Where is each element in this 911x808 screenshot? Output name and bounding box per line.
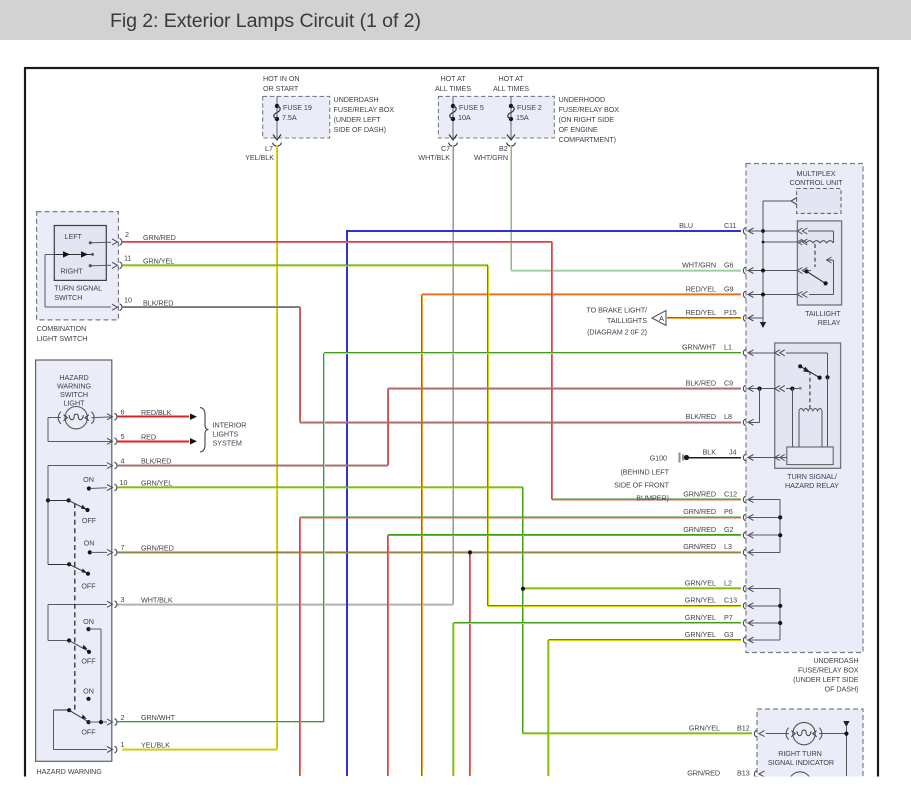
- C9 to L8 jumper: [748, 387, 762, 423]
- svg-text:FUSE 5: FUSE 5: [459, 103, 484, 112]
- svg-text:15A: 15A: [516, 113, 529, 122]
- junction pin7/L3 branch: [468, 550, 472, 554]
- reference triangle A: [652, 311, 666, 326]
- svg-text:OFF: OFF: [81, 657, 96, 666]
- svg-text:FUSE/RELAY BOX: FUSE/RELAY BOX: [559, 105, 620, 114]
- hazard switch lamp: [58, 407, 94, 429]
- connector pin 10 (hazard): [107, 478, 127, 491]
- lamp wire to pin 6: [91, 416, 111, 419]
- label OFF (switch 4): [81, 728, 96, 737]
- svg-text:G6: G6: [724, 260, 734, 269]
- svg-text:BLK/RED: BLK/RED: [141, 457, 171, 466]
- wire GRN/RED G2 from page bottom: [388, 535, 742, 776]
- connector pin 11 (turn signal): [112, 253, 131, 268]
- hazard pin 1 internal wire: [54, 710, 108, 749]
- ts relay edge arrows: [775, 350, 785, 461]
- label WHT/GRN (fuse B2): [474, 153, 508, 162]
- label GRN/WHT pin 2: [141, 713, 176, 722]
- svg-text:COMBINATION: COMBINATION: [37, 324, 87, 333]
- wire GRN/YEL pin10 to B12: [118, 487, 753, 734]
- svg-text:FUSE/RELAY BOX: FUSE/RELAY BOX: [798, 666, 859, 675]
- connector pin 2 (turn signal): [112, 230, 129, 245]
- svg-text:B12: B12: [737, 723, 750, 732]
- ts relay coil: [792, 377, 827, 447]
- svg-text:GRN/YEL: GRN/YEL: [685, 596, 716, 605]
- label GRN/RED pin 2: [143, 233, 176, 242]
- svg-text:GRN/RED: GRN/RED: [683, 525, 716, 534]
- svg-text:OR START: OR START: [263, 84, 299, 93]
- fuse F5 10A: [450, 96, 484, 138]
- svg-text:HAZARD WARNING: HAZARD WARNING: [37, 767, 103, 776]
- turn signal common arm: [54, 251, 94, 257]
- svg-text:HOT AT: HOT AT: [499, 74, 525, 83]
- hazard switch 1 arm: [48, 498, 90, 512]
- wire BLK/RED pin4 to C9: [118, 388, 742, 466]
- lamp loop wire to pin 5: [48, 418, 111, 442]
- svg-text:COMPARTMENT): COMPARTMENT): [559, 135, 616, 144]
- connector pin 1 (hazard): [107, 740, 125, 753]
- label UNDERDASH FUSE/RELAY BOX: [334, 95, 395, 134]
- svg-text:RIGHT: RIGHT: [61, 267, 84, 276]
- wire GRN/RED P6 from page bottom: [300, 517, 742, 776]
- svg-text:WHT/GRN: WHT/GRN: [474, 153, 508, 162]
- ts relay J4 wire: [748, 457, 787, 459]
- wire BLK G100 to J4: [686, 457, 741, 459]
- svg-text:6: 6: [121, 408, 125, 417]
- label TURN SIGNAL SWITCH: [54, 284, 102, 303]
- wire GRN/WHT pin2 to L1: [118, 352, 742, 722]
- svg-text:L7: L7: [265, 144, 273, 153]
- hazard switch 4 ON contact: [83, 687, 94, 701]
- svg-text:FUSE 19: FUSE 19: [283, 103, 312, 112]
- taillight relay actuator (dashed): [814, 244, 816, 267]
- svg-text:SIGNAL INDICATOR: SIGNAL INDICATOR: [768, 758, 834, 767]
- wire RED/BLK to interior lights: [118, 416, 190, 417]
- connector pin 4 (hazard): [107, 456, 125, 469]
- label HOT AT ALL TIMES (fuse 5): [435, 74, 471, 93]
- svg-text:2: 2: [125, 230, 129, 239]
- svg-text:LIGHTS: LIGHTS: [213, 430, 239, 439]
- label GRN/RED pin 7: [141, 544, 174, 553]
- svg-text:C12: C12: [724, 489, 737, 498]
- label HOT AT ALL TIMES (fuse 2): [493, 74, 529, 93]
- wire WHT/BLK C7 to hazard pin 3: [117, 145, 454, 605]
- connector pin 6 (hazard): [107, 408, 125, 421]
- fuse box exit arrow B2: [499, 135, 515, 154]
- taillight relay fixed contact: [809, 257, 833, 295]
- svg-text:3: 3: [121, 595, 125, 604]
- label MULTIPLEX CONTROL UNIT: [789, 169, 843, 187]
- wire YEL/BLK L7 to hazard pin 1: [122, 145, 278, 750]
- GRN/RED group bus: [748, 500, 782, 553]
- taillight relay contact: [804, 269, 827, 285]
- svg-text:GRN/RED: GRN/RED: [687, 768, 720, 777]
- svg-text:B13: B13: [737, 768, 750, 777]
- wire GRN/RED branch down from L3 line: [470, 552, 471, 776]
- connector B12: [754, 730, 764, 737]
- ts relay actuator (dashed): [809, 371, 811, 412]
- wire GRN/YEL pin11 to C13: [123, 265, 742, 607]
- svg-text:INTERIOR: INTERIOR: [213, 421, 247, 430]
- svg-text:TO BRAKE LIGHT/: TO BRAKE LIGHT/: [586, 305, 647, 314]
- svg-text:B2: B2: [499, 144, 508, 153]
- combination light switch box (dashed): [37, 212, 119, 320]
- label RED pin 5: [141, 432, 156, 441]
- wire BLU C11 down to page cut: [347, 231, 741, 776]
- label RED/BLK pin 6: [141, 408, 172, 417]
- ts relay L1 wire: [748, 353, 828, 378]
- svg-text:7: 7: [121, 543, 125, 552]
- label WHT/BLK pin 3: [141, 595, 173, 604]
- svg-text:CONTROL UNIT: CONTROL UNIT: [789, 178, 843, 187]
- label TURN SIGNAL/ HAZARD RELAY: [785, 472, 839, 490]
- label LEFT: [65, 232, 83, 241]
- label RIGHT TURN SIGNAL INDICATOR: [768, 749, 834, 767]
- svg-text:C13: C13: [724, 596, 737, 605]
- label GRN/YEL pin 11: [143, 256, 174, 265]
- ground G100 symbol: [680, 453, 690, 463]
- hazard pin 3 internal wire: [48, 604, 107, 640]
- svg-text:SWITCH: SWITCH: [54, 293, 82, 302]
- svg-text:LEFT: LEFT: [65, 232, 83, 241]
- hazard warning switch box: [36, 360, 112, 761]
- hazard switch 4 arm: [54, 708, 91, 724]
- wire GRN/RED pin2 to C12: [123, 241, 742, 500]
- svg-text:ALL TIMES: ALL TIMES: [493, 84, 529, 93]
- svg-text:FUSE/RELAY BOX: FUSE/RELAY BOX: [334, 105, 395, 114]
- svg-text:YEL/BLK: YEL/BLK: [141, 741, 170, 750]
- svg-text:OFF: OFF: [81, 728, 96, 737]
- pin2 internal junction: [89, 720, 108, 724]
- svg-text:HAZARD RELAY: HAZARD RELAY: [785, 481, 839, 490]
- label GRN/YEL pin 10: [141, 479, 172, 488]
- label HAZARD WARNING (box caption): [37, 767, 103, 776]
- label TO BRAKE LIGHT/TAILLIGHTS: [586, 305, 647, 336]
- svg-text:G9: G9: [724, 284, 734, 293]
- svg-text:ALL TIMES: ALL TIMES: [435, 84, 471, 93]
- svg-text:WHT/BLK: WHT/BLK: [418, 153, 450, 162]
- svg-text:GRN/RED: GRN/RED: [683, 507, 716, 516]
- label BLK/RED pin 4: [141, 457, 171, 466]
- label HOT IN ON OR START: [263, 74, 300, 93]
- hazard switch 3 arm: [67, 638, 91, 654]
- hazard switch 3 ON contact: [83, 617, 94, 631]
- svg-text:L2: L2: [724, 579, 732, 588]
- title bar: [0, 0, 911, 40]
- svg-text:GRN/RED: GRN/RED: [683, 489, 716, 498]
- svg-text:L8: L8: [724, 412, 732, 421]
- taillight relay box: [797, 221, 841, 305]
- svg-text:SIDE OF DASH): SIDE OF DASH): [334, 125, 386, 134]
- svg-text:Fig 2: Exterior Lamps Circuit: Fig 2: Exterior Lamps Circuit (1 of 2): [110, 10, 421, 32]
- wire RED/YEL triangle to P15: [667, 318, 741, 319]
- svg-text:11: 11: [124, 253, 131, 262]
- svg-text:4: 4: [121, 456, 125, 465]
- label OFF (switch 1): [82, 516, 97, 525]
- indicator feed from above: [843, 721, 849, 776]
- svg-text:10: 10: [120, 478, 128, 487]
- svg-text:RED/YEL: RED/YEL: [686, 308, 716, 317]
- underdash fuse/relay box (dashed, right): [746, 164, 863, 653]
- svg-text:SYSTEM: SYSTEM: [213, 439, 242, 448]
- svg-text:TURN SIGNAL/: TURN SIGNAL/: [787, 472, 837, 481]
- label G100: [650, 454, 667, 463]
- indicator lamp B12: [766, 722, 846, 744]
- ts relay C9 wire: [748, 387, 802, 391]
- svg-text:HOT AT: HOT AT: [441, 74, 467, 83]
- svg-text:BLU: BLU: [679, 221, 693, 230]
- svg-text:GRN/RED: GRN/RED: [141, 544, 174, 553]
- svg-text:C7: C7: [441, 144, 450, 153]
- label TAILLIGHT RELAY: [805, 309, 841, 327]
- bus continuation arrow: [760, 322, 766, 328]
- taillight relay edge arrows: [797, 228, 807, 298]
- left indicator lamp (cut): [789, 772, 811, 794]
- underdash fuse box (dashed): [263, 96, 330, 138]
- arrow to interior lights (pin 5): [190, 438, 197, 444]
- svg-text:GRN/WHT: GRN/WHT: [682, 343, 717, 352]
- label OFF (switch 2): [81, 582, 96, 591]
- label RIGHT: [61, 267, 84, 276]
- svg-text:BLK/RED: BLK/RED: [143, 298, 173, 307]
- connector pin 5 (hazard): [107, 432, 125, 445]
- svg-text:BLK/RED: BLK/RED: [686, 378, 716, 387]
- svg-text:L1: L1: [724, 343, 732, 352]
- svg-text:OF ENGINE: OF ENGINE: [559, 125, 598, 134]
- svg-text:MULTIPLEX: MULTIPLEX: [797, 169, 836, 178]
- arrow to interior lights (pin 6): [190, 414, 197, 420]
- ts relay switch: [798, 364, 830, 380]
- svg-text:ON: ON: [84, 539, 95, 548]
- svg-text:P6: P6: [724, 507, 733, 516]
- svg-text:C11: C11: [724, 221, 737, 230]
- svg-text:A: A: [659, 314, 664, 323]
- wire GRN/YEL P7 from page bottom: [453, 623, 741, 777]
- label COMBINATION LIGHT SWITCH: [37, 324, 88, 343]
- label UNDERDASH FUSE/RELAY BOX (right): [793, 656, 859, 694]
- svg-text:1: 1: [121, 740, 125, 749]
- underhood fuse box (dashed): [438, 96, 554, 138]
- ts relay timer block: [787, 447, 833, 465]
- svg-text:GRN/RED: GRN/RED: [143, 233, 176, 242]
- svg-text:GRN/YEL: GRN/YEL: [685, 579, 716, 588]
- svg-text:UNDERHOOD: UNDERHOOD: [559, 95, 606, 104]
- svg-text:(UNDER LEFT SIDE: (UNDER LEFT SIDE: [793, 675, 859, 684]
- brace interior lights system: [200, 408, 209, 453]
- svg-text:RED/YEL: RED/YEL: [686, 284, 716, 293]
- svg-text:GRN/WHT: GRN/WHT: [141, 713, 176, 722]
- svg-text:(DIAGRAM 2 0F 2): (DIAGRAM 2 0F 2): [587, 327, 647, 336]
- hazard switch 2 ON contact on pin7 row: [84, 539, 107, 555]
- svg-text:GRN/YEL: GRN/YEL: [685, 613, 716, 622]
- svg-text:ON: ON: [83, 475, 94, 484]
- svg-text:P15: P15: [724, 308, 737, 317]
- connector pin 2 (hazard): [107, 713, 125, 726]
- label G100 location: [614, 468, 670, 503]
- turn signal switch inner box: [54, 226, 106, 281]
- svg-text:OFF: OFF: [82, 516, 97, 525]
- wire module to bus: [763, 201, 791, 231]
- svg-text:2: 2: [121, 713, 125, 722]
- module connector arrow: [791, 198, 797, 205]
- svg-text:TURN SIGNAL: TURN SIGNAL: [54, 284, 102, 293]
- svg-text:10A: 10A: [458, 113, 471, 122]
- multiplex internal bus: [748, 231, 797, 322]
- wire WHT/GRN B2 to G6: [511, 145, 742, 271]
- fuse box exit arrow L7: [265, 135, 281, 154]
- label OFF (switch 3): [81, 657, 96, 666]
- wire switch3 ON to pin2 row: [89, 629, 102, 722]
- svg-text:WHT/GRN: WHT/GRN: [682, 260, 716, 269]
- label YEL/BLK (fuse L7): [245, 153, 274, 162]
- svg-text:HOT IN ON: HOT IN ON: [263, 74, 300, 83]
- connector B13 (partial): [754, 771, 764, 778]
- turn signal hazard relay box: [775, 343, 841, 468]
- wire RED to interior lights: [118, 440, 190, 442]
- label WHT/BLK (fuse C7): [418, 153, 450, 162]
- svg-text:OF DASH): OF DASH): [825, 685, 859, 694]
- svg-text:10: 10: [124, 295, 132, 304]
- svg-text:G2: G2: [724, 525, 734, 534]
- svg-text:J4: J4: [729, 447, 737, 456]
- taillight relay coil: [800, 231, 834, 243]
- fuse box exit arrow C7: [441, 135, 457, 154]
- connector pin 10 (turn signal): [112, 295, 132, 310]
- svg-text:7.5A: 7.5A: [282, 113, 297, 122]
- turn signal LEFT contact: [89, 241, 111, 244]
- svg-text:BLK/RED: BLK/RED: [686, 412, 716, 421]
- svg-text:SIDE OF FRONT: SIDE OF FRONT: [614, 481, 670, 490]
- wire BLK/RED pin10 to L8: [123, 307, 742, 423]
- wire GRN/RED pin7 to L3: [118, 552, 742, 553]
- svg-text:UNDERDASH: UNDERDASH: [813, 656, 858, 665]
- svg-text:ON: ON: [83, 687, 94, 696]
- label GRN/RED B13: [687, 768, 749, 777]
- svg-text:(BEHIND LEFT: (BEHIND LEFT: [620, 468, 669, 477]
- svg-text:GRN/YEL: GRN/YEL: [141, 479, 172, 488]
- svg-text:(UNDER LEFT: (UNDER LEFT: [334, 115, 382, 124]
- label YEL/BLK pin 1: [141, 741, 170, 750]
- turn signal common wire to pin 10: [45, 254, 111, 307]
- svg-text:(ON RIGHT SIDE: (ON RIGHT SIDE: [559, 115, 615, 124]
- svg-text:BUMPER): BUMPER): [636, 494, 669, 503]
- label INTERIOR LIGHTS SYSTEM: [213, 421, 247, 448]
- svg-text:TAILLIGHTS: TAILLIGHTS: [607, 316, 647, 325]
- wire GRN/YEL G3 from page bottom: [548, 640, 741, 777]
- fuse F19 7.5A: [274, 96, 312, 138]
- connector pin 7 (hazard): [107, 543, 125, 556]
- svg-text:L3: L3: [724, 542, 732, 551]
- svg-text:ON: ON: [83, 617, 94, 626]
- label GRN/YEL B12: [689, 723, 750, 732]
- GRN/YEL group bus: [748, 589, 782, 640]
- svg-text:RED/BLK: RED/BLK: [141, 408, 172, 417]
- svg-text:FUSE 2: FUSE 2: [517, 103, 542, 112]
- svg-text:BLK: BLK: [703, 447, 717, 456]
- svg-text:UNDERDASH: UNDERDASH: [334, 95, 379, 104]
- hazard switch 1 (pin 10) ON contact: [83, 475, 107, 491]
- svg-text:C9: C9: [724, 378, 733, 387]
- svg-text:GRN/YEL: GRN/YEL: [689, 723, 720, 732]
- hazard internal rail from pin 4: [48, 466, 107, 565]
- svg-text:RELAY: RELAY: [818, 318, 841, 327]
- label BLK/RED pin 10: [143, 298, 173, 307]
- junction GRN/YEL L2 tap: [521, 587, 525, 591]
- connector pin 3 (hazard): [107, 595, 125, 608]
- right turn signal indicator box (dashed): [757, 709, 863, 799]
- svg-text:P7: P7: [724, 613, 733, 622]
- svg-text:WHT/BLK: WHT/BLK: [141, 595, 173, 604]
- svg-text:G3: G3: [724, 630, 734, 639]
- svg-text:LIGHT SWITCH: LIGHT SWITCH: [37, 334, 88, 343]
- fuse F2 15A: [508, 96, 542, 138]
- multiplex inner module (dashed): [797, 189, 841, 214]
- turn signal RIGHT contact: [89, 264, 111, 267]
- svg-text:5: 5: [121, 432, 125, 441]
- svg-text:RED: RED: [141, 432, 156, 441]
- page cut mask: [0, 777, 911, 808]
- bus junction dots: [761, 229, 765, 296]
- svg-text:OFF: OFF: [81, 582, 96, 591]
- svg-text:GRN/YEL: GRN/YEL: [143, 256, 174, 265]
- switch linkage (dashed): [74, 503, 76, 710]
- svg-text:YEL/BLK: YEL/BLK: [245, 153, 274, 162]
- svg-text:G100: G100: [650, 454, 667, 463]
- wire GRN/YEL L2 stub: [523, 588, 741, 589]
- right side wire and pin labels: [679, 221, 737, 639]
- rail junction at switch 1: [46, 498, 50, 502]
- wire RED/YEL G9 from page bottom: [422, 294, 742, 776]
- svg-text:TAILLIGHT: TAILLIGHT: [805, 309, 841, 318]
- hazard switch 2 arm: [48, 562, 90, 576]
- edge connectors C11..G3: [743, 228, 753, 644]
- svg-text:GRN/RED: GRN/RED: [683, 542, 716, 551]
- label UNDERHOOD FUSE/RELAY BOX: [559, 95, 620, 144]
- svg-text:GRN/YEL: GRN/YEL: [685, 630, 716, 639]
- label HAZARD WARNING SWITCH LIGHT: [57, 373, 92, 408]
- svg-text:RIGHT TURN: RIGHT TURN: [778, 749, 822, 758]
